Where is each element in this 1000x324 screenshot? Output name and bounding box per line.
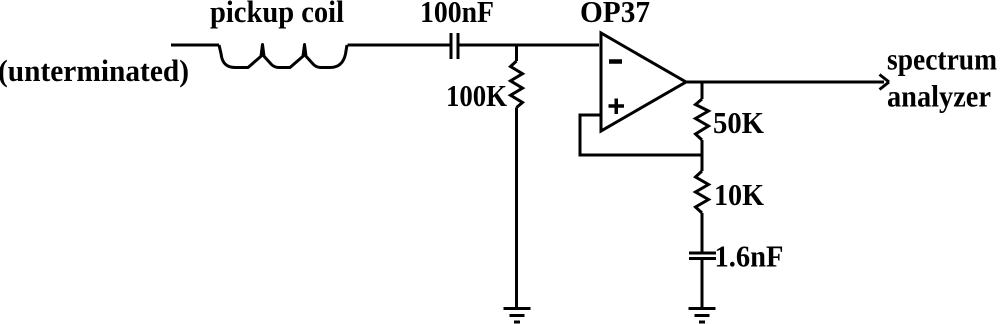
wire R2 to R3, junction with feedback at node B (701, 140, 704, 171)
svg-text:10K: 10K (714, 177, 764, 212)
resistor R3 10K (696, 171, 709, 213)
wire C1 to op-amp inverting input, junction at node A (458, 44, 599, 47)
wire op-amp output to arrow (686, 81, 884, 84)
svg-text:analyzer: analyzer (887, 79, 991, 114)
wire input lead (171, 44, 219, 47)
svg-text:pickup coil: pickup coil (210, 0, 344, 29)
svg-text:100K: 100K (446, 78, 507, 113)
svg-text:(unterminated): (unterminated) (0, 53, 189, 88)
svg-text:spectrum: spectrum (887, 42, 997, 77)
wire R3 to C2 (701, 213, 704, 252)
wire feedback from plus input (580, 115, 702, 155)
resistor R2 50K (696, 99, 709, 140)
wire output node down to R2 (701, 82, 704, 99)
op-amp U1 OP37 (601, 33, 686, 131)
capacitor C1 100nF (451, 33, 458, 59)
op-amp non-inverting input plus sign (609, 99, 625, 115)
ground left (504, 309, 531, 323)
inductor L1 pickup coil (219, 45, 347, 68)
resistor R1 100K (511, 61, 523, 108)
wire R1 to ground (515, 108, 518, 309)
svg-text:1.6nF: 1.6nF (715, 239, 784, 274)
wire node A down to R1 (515, 45, 518, 61)
arrow to spectrum analyzer (880, 75, 890, 90)
ground right (689, 309, 716, 323)
capacitor C2 1.6nF (689, 253, 716, 259)
op-amp inverting input minus sign (609, 59, 622, 64)
wire C2 to ground (701, 259, 704, 309)
wire coil to C1 (348, 44, 451, 47)
svg-text:OP37: OP37 (580, 0, 650, 29)
svg-text:100nF: 100nF (420, 0, 494, 29)
svg-text:50K: 50K (713, 105, 764, 140)
